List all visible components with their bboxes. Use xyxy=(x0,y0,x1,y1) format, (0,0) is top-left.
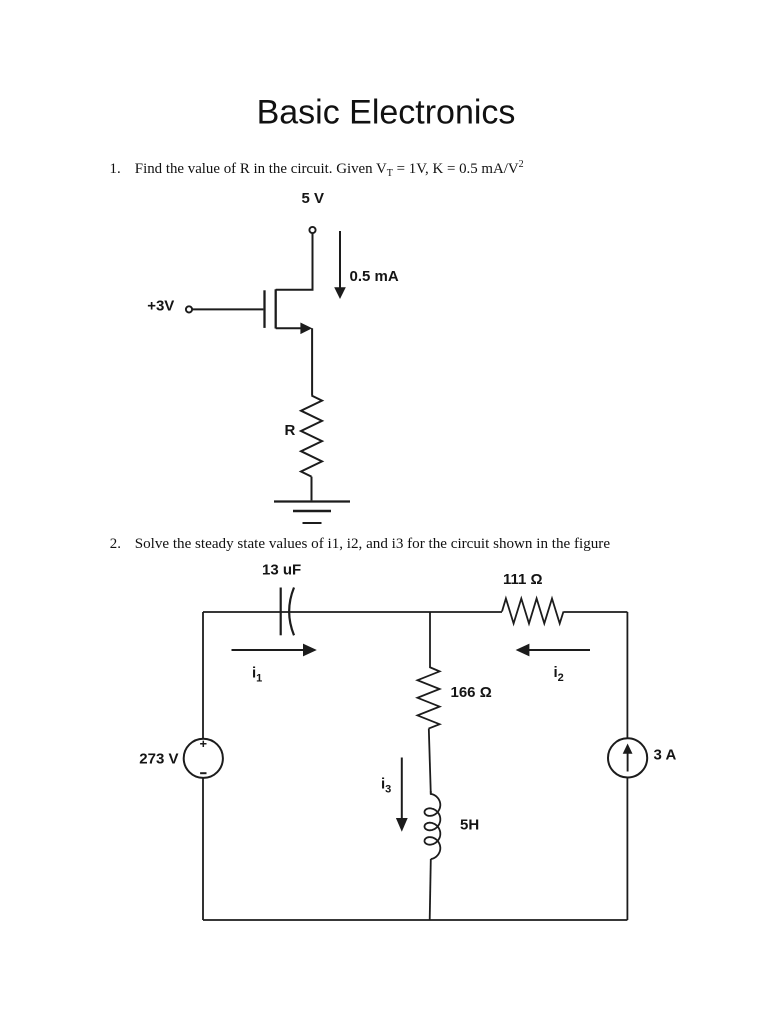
problem 1 statement xyxy=(110,159,524,179)
capacitor 13 uF left plate xyxy=(280,588,282,636)
svg-text:13 uF: 13 uF xyxy=(262,562,301,579)
resistor R xyxy=(301,396,322,477)
wire gate xyxy=(192,308,263,310)
transistor M1 gate bar xyxy=(263,290,265,328)
svg-text:166 Ω: 166 Ω xyxy=(451,684,492,701)
svg-text:273 V: 273 V xyxy=(139,751,178,768)
voltage source minus xyxy=(200,772,206,774)
voltage source plus xyxy=(200,741,206,747)
svg-text:Find the value of R in the cir: Find the value of R in the circuit. Give… xyxy=(135,159,524,179)
transistor M1 channel bar xyxy=(275,289,277,328)
terminal gate xyxy=(186,306,192,312)
current source 3 A circle xyxy=(608,738,647,777)
svg-text:Basic Electronics: Basic Electronics xyxy=(257,94,516,132)
wire left xyxy=(202,612,204,739)
svg-text:2.: 2. xyxy=(110,536,121,552)
capacitor 13 uF right plate xyxy=(289,588,294,636)
resistor 166 ohm xyxy=(418,667,440,729)
ground xyxy=(274,500,350,502)
current arrow i2 xyxy=(529,649,590,651)
svg-text:5 V: 5 V xyxy=(302,190,325,207)
svg-text:i2: i2 xyxy=(554,664,564,684)
svg-text:i1: i1 xyxy=(252,665,262,685)
svg-text:R: R xyxy=(285,422,296,439)
wire bottom xyxy=(203,919,627,921)
svg-text:Solve the steady state values: Solve the steady state values of i1, i2,… xyxy=(135,536,611,552)
svg-text:3 A: 3 A xyxy=(654,747,677,764)
wire source to resistor xyxy=(311,328,313,395)
wire top left xyxy=(203,611,502,613)
svg-text:111 Ω: 111 Ω xyxy=(503,571,543,588)
inductor 5H xyxy=(425,791,441,859)
wire resistor to inductor xyxy=(429,729,431,794)
wire inductor to bottom xyxy=(430,859,431,920)
current arrow i3 xyxy=(401,758,403,819)
current arrow i1 xyxy=(232,649,304,651)
svg-text:+3V: +3V xyxy=(147,297,174,314)
current source arrow xyxy=(627,754,629,772)
wire drain to VDD xyxy=(276,233,313,290)
wire resistor to ground xyxy=(311,477,313,501)
svg-text:5H: 5H xyxy=(460,817,479,834)
terminal VDD xyxy=(309,227,315,233)
wire middle branch top xyxy=(429,612,431,667)
problem 2 statement xyxy=(110,536,611,552)
transistor M1 source wire with arrow xyxy=(276,327,301,329)
wire top right xyxy=(564,611,628,613)
voltage source 273 V circle xyxy=(184,739,223,778)
resistor 111 ohm xyxy=(502,599,564,624)
svg-text:1.: 1. xyxy=(110,161,121,177)
wire right xyxy=(626,612,628,738)
current arrow 0.5 mA xyxy=(339,231,341,288)
svg-text:0.5 mA: 0.5 mA xyxy=(350,268,399,285)
svg-text:i3: i3 xyxy=(381,776,391,796)
